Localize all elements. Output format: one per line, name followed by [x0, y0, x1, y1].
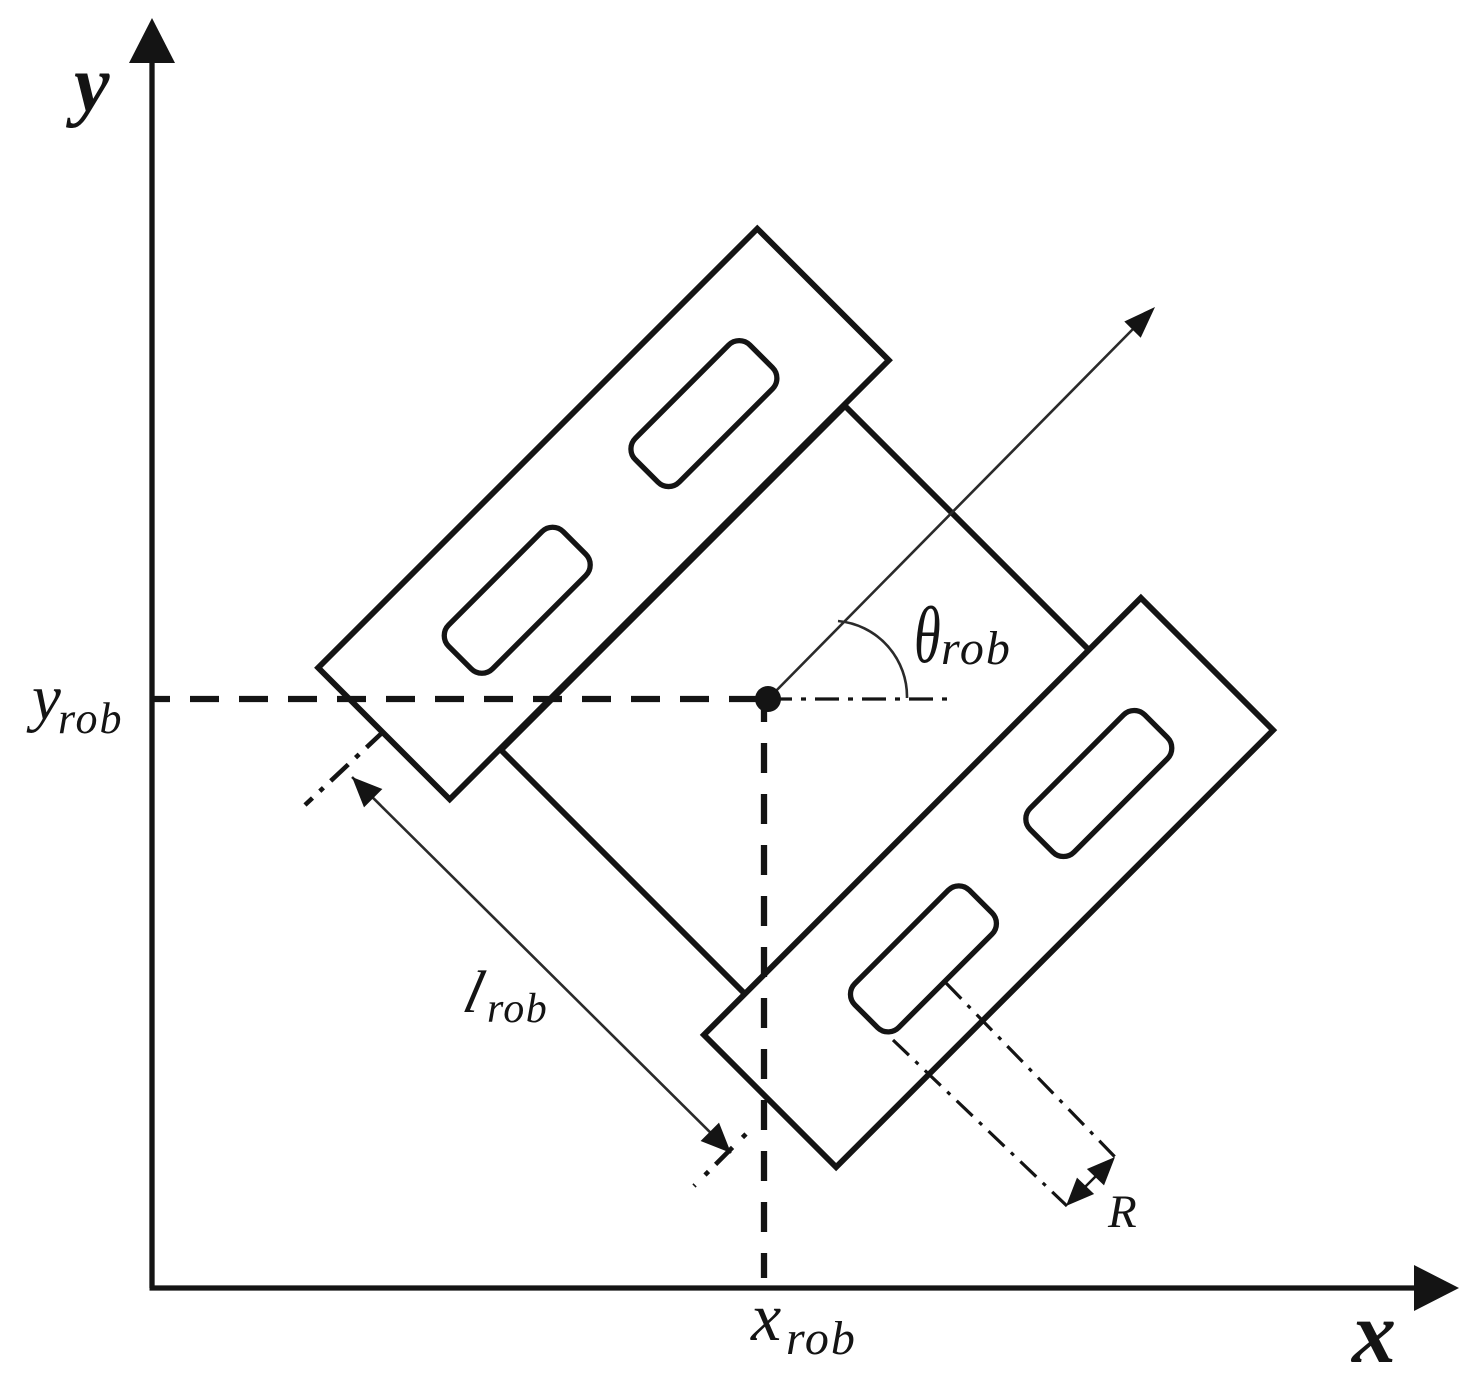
R dimension arrow shaft: [1070, 1161, 1111, 1202]
dash-dot extension tick at upper l_rob end: [305, 731, 384, 805]
l_rob dimension arrow shaft: [352, 777, 731, 1153]
svg-text:rob: rob: [941, 622, 1012, 675]
svg-text:R: R: [1107, 1186, 1137, 1238]
dashed horizontal projection line y_rob: [152, 696, 768, 702]
heading arrow line: [768, 329, 1133, 699]
svg-text:y: y: [26, 662, 61, 734]
dash-dot wheel radius line upper: [946, 983, 1116, 1158]
svg-text:x: x: [750, 1279, 781, 1355]
svg-text:θ: θ: [914, 591, 941, 680]
l_rob upper arrowhead: [352, 777, 382, 807]
R lower arrowhead: [1066, 1178, 1094, 1206]
right wheel front tread: [1020, 704, 1178, 862]
right wheel (bottom-right, rotated rect): [704, 598, 1273, 1167]
dashed vertical projection line x_rob: [761, 692, 767, 1278]
x axis arrowhead: [1414, 1265, 1459, 1311]
robot center dot: [755, 686, 781, 712]
left wheel front tread: [625, 334, 783, 492]
dash-dot extension tick at lower l_rob end: [694, 1134, 746, 1186]
svg-text:rob: rob: [786, 1312, 857, 1365]
y axis: [149, 55, 154, 1288]
R upper arrowhead: [1087, 1157, 1115, 1185]
heading arrowhead: [1124, 307, 1155, 338]
dash-dot wheel radius line lower: [893, 1040, 1067, 1206]
dash-dot reference line (horizontal from center): [768, 697, 950, 700]
l_rob lower arrowhead: [701, 1123, 731, 1153]
left wheel (top-left, rotated rect): [318, 229, 889, 800]
left wheel rear tread: [438, 521, 596, 679]
svg-text:rob: rob: [58, 694, 124, 743]
svg-text:x: x: [1350, 1285, 1396, 1382]
x axis: [150, 1285, 1421, 1290]
robot body (rotated square): [501, 406, 1190, 1095]
svg-text:rob: rob: [487, 986, 548, 1032]
theta arc: [838, 621, 907, 698]
y axis arrowhead: [129, 18, 175, 63]
right wheel rear tread: [844, 880, 1002, 1038]
